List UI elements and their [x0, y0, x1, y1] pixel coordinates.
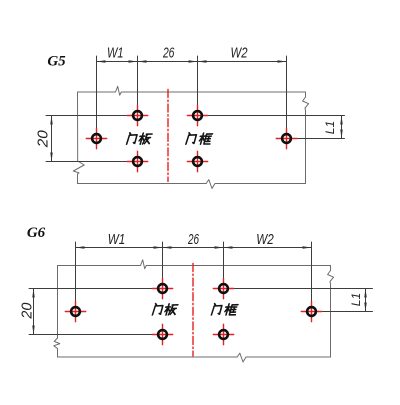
dim L1 G6 vertical line	[365, 289, 367, 312]
arrows top dim G5	[97, 60, 106, 63]
plate G6 bottom edge with break	[58, 353, 331, 362]
svg-text:20: 20	[20, 303, 36, 320]
svg-text:L1: L1	[323, 121, 337, 135]
svg-text:L1: L1	[349, 293, 363, 307]
top dimension line G6	[76, 247, 312, 249]
plate outline G6 top edge with break	[58, 260, 331, 269]
hole G6 H5 bottom-right	[213, 324, 233, 344]
svg-text:26: 26	[162, 46, 175, 62]
extension line W2 right G6	[311, 242, 313, 301]
plate outline G5 top edge with break	[78, 86, 306, 95]
dim 20 G6 top extension	[29, 288, 152, 290]
plate G6 right edge with break	[328, 266, 334, 358]
extension line W2 right G5	[286, 56, 288, 128]
plate G5 bottom edge with break	[78, 180, 306, 189]
hole G6 H1 left	[65, 301, 85, 321]
text men-ban G6 (door panel)	[152, 304, 178, 315]
hole G5 H3 bottom-left	[127, 151, 147, 171]
hole G5 H5 bottom-right	[187, 151, 207, 171]
hole G6 H6 right	[301, 301, 321, 321]
extension line 26/W2 shared G6	[223, 242, 225, 278]
svg-text:G5: G5	[47, 54, 66, 70]
plate G5 left edge with break	[73, 92, 84, 184]
extension line 26/W2 shared G5	[197, 56, 199, 105]
dim 20 G5 top extension	[46, 115, 127, 117]
hole G6 H2 top-left	[152, 278, 172, 298]
svg-text:26: 26	[187, 232, 199, 248]
plate G5 right edge with break	[303, 92, 309, 184]
svg-text:20: 20	[36, 130, 52, 148]
text men-ban G5 (door panel)	[127, 133, 153, 144]
dim L1 G5 vertical line	[341, 116, 343, 139]
svg-text:W2: W2	[256, 232, 274, 248]
svg-text:G6: G6	[27, 225, 46, 241]
hole G6 H4 top-right	[213, 278, 233, 298]
svg-text:W1: W1	[107, 46, 124, 62]
extension line W1/26 shared G6	[162, 242, 164, 278]
dim L1 G5 top extension	[208, 115, 345, 117]
svg-text:W2: W2	[231, 46, 248, 62]
dim L1 G5 bottom extension	[297, 138, 345, 140]
extension line W1/26 shared G5	[137, 56, 139, 105]
top dimension line G5	[97, 61, 287, 63]
dim 20 G6 vertical line	[33, 289, 35, 335]
hole G5 H4 top-right	[187, 105, 207, 125]
dim L1 G6 top extension	[234, 288, 373, 290]
dim 20 G5 vertical line	[51, 116, 53, 162]
dim 20 G6 bottom extension	[29, 334, 152, 336]
centerline G5	[167, 90, 169, 182]
text men-kuang G5 (door frame)	[186, 133, 213, 144]
extension line W1 left G5	[96, 56, 98, 128]
text men-kuang G6 (door frame)	[211, 304, 238, 315]
hole G5 H6 right	[276, 128, 296, 148]
hole G6 H3 bottom-left	[152, 324, 172, 344]
hole G5 H2 top-left	[127, 105, 147, 125]
dim L1 G6 bottom extension	[322, 311, 373, 313]
extension line W1 left G6	[75, 242, 77, 301]
hole G5 H1 left	[86, 128, 106, 148]
plate G6 left edge with break	[54, 266, 60, 358]
dim 20 G5 bottom extension	[46, 161, 127, 163]
svg-text:W1: W1	[108, 232, 126, 248]
centerline G6	[192, 264, 194, 357]
